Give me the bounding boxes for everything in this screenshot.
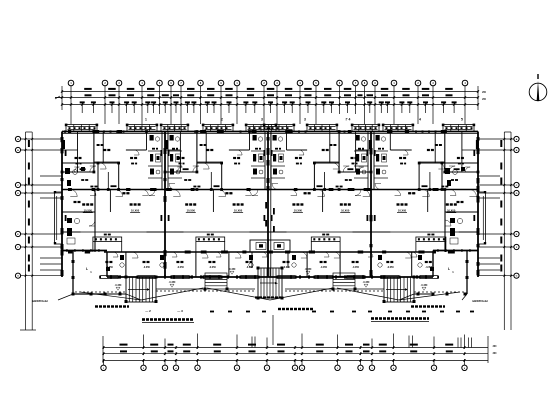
svg-text:-0.450: -0.450 xyxy=(229,268,236,271)
svg-text:L: L xyxy=(448,267,450,271)
svg-text:-0.050: -0.050 xyxy=(352,266,359,269)
svg-text:-0.050: -0.050 xyxy=(143,266,150,269)
svg-text:-0.050: -0.050 xyxy=(283,266,290,269)
svg-text:-0.450: -0.450 xyxy=(421,284,428,287)
svg-text:-0.450: -0.450 xyxy=(363,281,370,284)
svg-text:taN00Pt/Cebd: taN00Pt/Cebd xyxy=(472,300,488,303)
svg-text:-0.450: -0.450 xyxy=(115,284,122,287)
svg-text:2: 2 xyxy=(221,118,223,122)
svg-text:— 2: — 2 xyxy=(145,309,151,313)
svg-text:10.X00: 10.X00 xyxy=(294,209,303,213)
svg-text:-0.050: -0.050 xyxy=(320,266,327,269)
svg-text:taN00Pt/Cebd: taN00Pt/Cebd xyxy=(32,300,48,303)
svg-text:3: 3 xyxy=(261,118,263,122)
svg-text:-0.050: -0.050 xyxy=(177,266,184,269)
svg-text:3: 3 xyxy=(304,118,306,122)
svg-text:-0.050: -0.050 xyxy=(387,266,394,269)
svg-text:-0.450: -0.450 xyxy=(305,268,312,271)
svg-text:10.X00: 10.X00 xyxy=(398,209,407,213)
svg-text:-0.450: -0.450 xyxy=(169,281,176,284)
svg-text:10.X00: 10.X00 xyxy=(131,209,140,213)
svg-text:4: 4 xyxy=(419,118,421,122)
svg-text:1: 1 xyxy=(145,118,147,122)
svg-text:Γ 4: Γ 4 xyxy=(346,118,351,122)
svg-text:L: L xyxy=(86,267,88,271)
svg-text:— 3: — 3 xyxy=(177,309,183,313)
svg-text:5: 5 xyxy=(461,118,463,122)
svg-text:G: G xyxy=(17,276,19,278)
svg-text:10.X00: 10.X00 xyxy=(187,209,196,213)
svg-text:10.X00: 10.X00 xyxy=(234,209,243,213)
svg-text:G: G xyxy=(516,276,518,278)
svg-text:10.X00: 10.X00 xyxy=(341,209,350,213)
svg-text:-0.050: -0.050 xyxy=(209,266,216,269)
